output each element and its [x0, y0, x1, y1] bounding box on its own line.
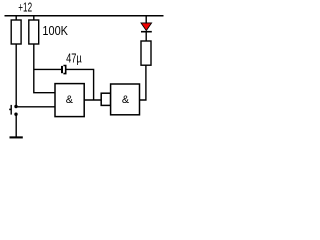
- switch S1 contact dot lower: [14, 113, 17, 116]
- capacitor C1 right plate bracket: [63, 66, 65, 74]
- svg-text:&: &: [122, 94, 130, 106]
- resistor R1: [11, 20, 21, 44]
- connector box U2 input: [101, 93, 110, 105]
- wire U1 output to U2: [84, 99, 101, 101]
- wire R3 top lead: [145, 32, 147, 42]
- op-amp gate U2 AND box: [111, 84, 140, 115]
- resistor R3: [141, 41, 151, 65]
- resistor R2: [29, 20, 39, 44]
- capacitor C1 left plate: [61, 66, 63, 73]
- wire switch to U1 input 2: [17, 106, 56, 108]
- wire R2 top lead: [33, 16, 35, 21]
- svg-text:100K: 100K: [42, 24, 68, 38]
- wire R2 bottom lead to gate U1 input 1: [34, 44, 55, 93]
- wire node R2 lead to C1: [34, 68, 61, 70]
- op-amp gate U1 AND box: [55, 84, 84, 117]
- wire U2 output stub: [140, 65, 146, 100]
- LED D1 cathode bar: [141, 31, 152, 33]
- wire switch to ground: [15, 115, 17, 136]
- svg-text:&: &: [66, 94, 74, 106]
- switch S1 contact dot upper: [14, 105, 17, 108]
- LED D1 red triangle: [141, 23, 152, 31]
- svg-text:47µ: 47µ: [66, 51, 82, 65]
- ground: [10, 136, 23, 138]
- wire R1 top lead: [15, 16, 17, 21]
- wire LED anode lead to rail: [145, 16, 147, 24]
- wire +12 rail: [5, 15, 164, 17]
- switch S1 actuator tick: [9, 108, 11, 110]
- wire R1 bottom lead to switch: [15, 44, 17, 105]
- svg-text:+12: +12: [18, 0, 32, 14]
- wire C1 to junction: [67, 69, 94, 99]
- switch S1 lever: [10, 105, 12, 115]
